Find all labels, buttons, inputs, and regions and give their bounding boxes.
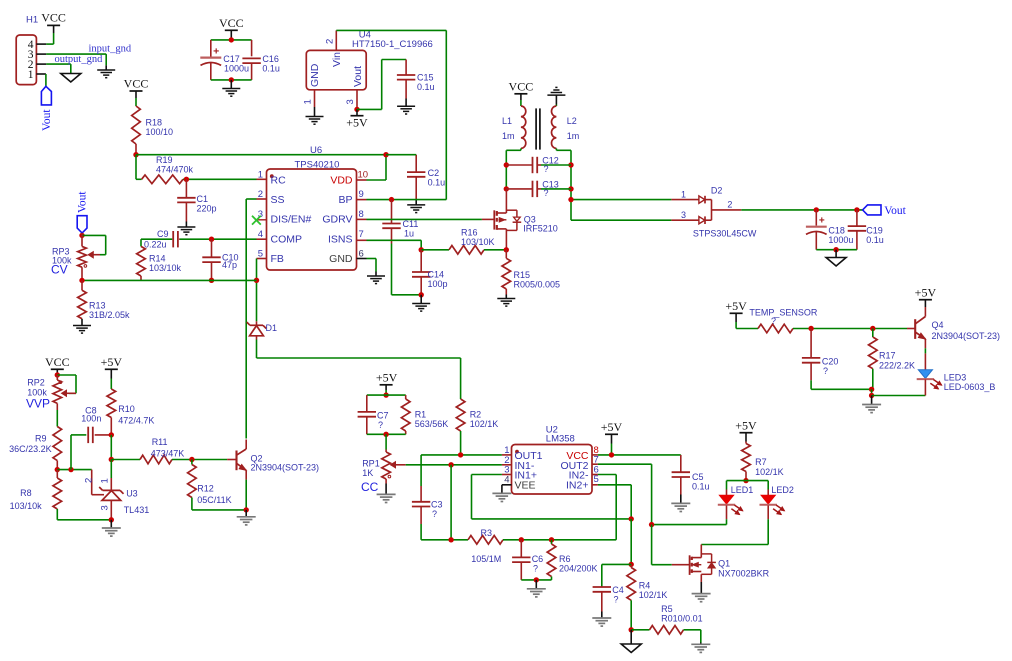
label C10 — [222, 253, 239, 271]
junction C17 bottom — [229, 77, 234, 82]
junction COMP/C10 — [209, 237, 214, 242]
shunt reference U3 TL431 — [92, 470, 124, 520]
capacitor C5 — [672, 455, 690, 503]
label R14 — [149, 254, 182, 274]
resistor R4 — [627, 564, 636, 629]
svg-text:47p: 47p — [222, 260, 237, 270]
junction U4 Vout — [354, 107, 359, 112]
wire to ground — [230, 80, 232, 89]
svg-text:5: 5 — [594, 474, 599, 485]
svg-text:2N3904(SOT-23): 2N3904(SOT-23) — [932, 331, 1001, 341]
svg-text:?: ? — [544, 188, 549, 198]
wire to output ground — [835, 250, 837, 258]
svg-text:2: 2 — [84, 478, 95, 483]
label R17 — [879, 351, 915, 371]
ground U4 — [306, 117, 324, 125]
svg-text:L2: L2 — [567, 116, 577, 126]
pin numbers U2 right — [594, 445, 599, 485]
svg-text:474/470k: 474/470k — [156, 165, 194, 175]
junction BP/C11 — [389, 197, 394, 202]
wire IN2+ down to R4 — [630, 519, 632, 565]
capacitor C1 — [177, 179, 195, 227]
junction R4/R5 — [629, 627, 634, 632]
svg-text:D1: D1 — [266, 323, 278, 333]
junction IN1- row — [448, 462, 453, 467]
svg-text:LM358: LM358 — [546, 434, 575, 445]
svg-text:VCC: VCC — [124, 77, 149, 91]
svg-text:VCC: VCC — [219, 16, 244, 30]
wire VCC to R18 — [135, 91, 137, 106]
wire VCC to RP2 — [56, 369, 58, 375]
svg-text:0.1u: 0.1u — [692, 482, 710, 492]
junction R17 top — [870, 326, 875, 331]
svg-text:HT7150-1_C19966: HT7150-1_C19966 — [352, 39, 433, 50]
svg-text:+5V: +5V — [376, 371, 398, 385]
svg-text:R14: R14 — [149, 254, 166, 264]
label H1 — [26, 15, 38, 26]
label U6 — [295, 145, 340, 171]
svg-text:+5V: +5V — [915, 285, 937, 299]
junction R4 top — [629, 562, 634, 567]
svg-text:U6: U6 — [310, 145, 322, 156]
wire C6 gnd stub — [535, 580, 537, 588]
transistor Q4 (NPN) — [915, 300, 925, 370]
svg-text:0.1u: 0.1u — [262, 63, 280, 73]
label D2 — [681, 186, 757, 239]
resistor R17 — [869, 329, 878, 390]
wire R3 row left — [421, 539, 468, 541]
junction U3 anode — [109, 517, 114, 522]
wire VCC to C17 rail — [230, 30, 232, 40]
svg-text:R19: R19 — [156, 155, 173, 165]
wire BP row — [367, 199, 447, 201]
wire R12 bottom row — [192, 509, 246, 511]
wire SS net — [246, 199, 256, 439]
svg-text:STPS30L45CW: STPS30L45CW — [693, 229, 757, 239]
wire C14 ground stub — [420, 295, 422, 304]
resistor R2 — [456, 399, 465, 455]
wire R19 to pin RC — [183, 178, 257, 180]
label R12 — [197, 484, 231, 506]
svg-text:R12: R12 — [197, 484, 214, 494]
junction output gnd — [833, 247, 838, 252]
wire C7/R1 bottom rail — [367, 433, 406, 435]
capacitor C6 — [512, 540, 530, 580]
svg-text:R13: R13 — [89, 301, 106, 311]
capacitor C4 — [593, 587, 611, 618]
label LED1 — [731, 485, 754, 495]
connector H1 — [16, 35, 36, 85]
ground R5 — [691, 644, 710, 652]
svg-text:RP1: RP1 — [362, 459, 380, 469]
ground input_gnd — [97, 70, 115, 78]
capacitor C15 — [397, 60, 415, 107]
svg-text:VEE: VEE — [515, 480, 536, 492]
power flag VCC (R18) — [124, 77, 149, 92]
svg-text:C4: C4 — [612, 585, 624, 595]
resistor R5 — [631, 626, 701, 644]
wire R17 gnd link — [871, 389, 873, 395]
label D1 — [266, 323, 278, 333]
ground R15 — [497, 299, 515, 307]
svg-text:05C/11K: 05C/11K — [197, 495, 231, 505]
wire C11 bottom to C14 bottom — [392, 294, 422, 296]
svg-text:ISNS: ISNS — [328, 234, 353, 246]
svg-text:204/200K: 204/200K — [559, 564, 598, 574]
svg-text:C15: C15 — [417, 73, 434, 83]
svg-text:C11: C11 — [403, 219, 419, 229]
inductor L2 — [552, 106, 557, 148]
junction C14 bottom — [419, 292, 424, 297]
svg-text:TEMP_SENSOR: TEMP_SENSOR — [749, 308, 818, 318]
resistor R1 — [401, 395, 410, 434]
capacitor C16 — [242, 40, 260, 80]
svg-text:3: 3 — [345, 99, 356, 104]
ground C1 — [177, 227, 195, 235]
svg-text:R16: R16 — [461, 228, 478, 238]
svg-text:SS: SS — [271, 194, 285, 206]
svg-text:100/10: 100/10 — [146, 127, 174, 137]
junction R19/C1 — [184, 177, 189, 182]
pin stub RC — [257, 178, 267, 180]
svg-text:222/2.2K: 222/2.2K — [879, 361, 915, 371]
svg-text:?: ? — [533, 564, 538, 574]
svg-text:VCC: VCC — [509, 79, 534, 93]
label C4 — [612, 585, 624, 605]
transistor Q1 (NMOS) — [690, 545, 716, 594]
wire VCC to L1 — [520, 94, 522, 106]
junction R12 top — [189, 457, 194, 462]
junction C13 left — [504, 186, 509, 191]
svg-text:R005/0.005: R005/0.005 — [514, 280, 561, 290]
label Q2 — [251, 454, 320, 473]
controller U6 — [267, 169, 357, 270]
svg-text:+5V: +5V — [601, 420, 623, 434]
svg-text:R15: R15 — [514, 270, 531, 280]
capacitor C19 — [848, 210, 866, 250]
svg-text:102/1K: 102/1K — [755, 467, 784, 477]
svg-text:31B/2.05k: 31B/2.05k — [89, 310, 130, 320]
wire GND pin to ground — [367, 259, 377, 277]
svg-text:LED3: LED3 — [944, 373, 967, 383]
junction C12 left — [504, 162, 509, 167]
label R10 — [118, 404, 154, 426]
capacitor C14 — [412, 250, 430, 295]
junction R17 bottom — [869, 387, 874, 392]
label LED2 — [771, 485, 794, 495]
wire R11 to Q2 base — [172, 459, 236, 461]
svg-text:Vin: Vin — [331, 52, 343, 67]
wire FB down — [256, 259, 258, 322]
svg-text:C5: C5 — [692, 472, 704, 482]
junction OUT2 node — [649, 522, 654, 527]
wire IN1+/IN2+ row — [472, 518, 632, 520]
svg-text:1: 1 — [303, 99, 314, 104]
wire LED1 bottom — [652, 506, 727, 525]
wire +5V stub — [611, 434, 613, 455]
svg-text:103/10k: 103/10k — [149, 263, 182, 273]
resistor R11 — [140, 455, 172, 464]
wire RP3 wiper loop — [82, 235, 106, 254]
label R11 — [151, 437, 185, 459]
resistor R18 — [132, 106, 141, 144]
svg-text:1m: 1m — [567, 131, 580, 141]
svg-text:220p: 220p — [197, 204, 217, 214]
svg-text:L1: L1 — [502, 116, 512, 126]
label R1 — [415, 410, 449, 430]
ground (flipped) above L2 — [547, 87, 565, 95]
resistor R3 — [468, 536, 503, 545]
svg-text:100p: 100p — [428, 279, 448, 289]
label R9 — [9, 434, 52, 455]
svg-text:R6: R6 — [559, 554, 571, 564]
svg-text:BP: BP — [338, 194, 352, 206]
label C19 — [866, 226, 884, 246]
label R3 — [471, 528, 501, 564]
junction D2 pin1 col — [568, 197, 573, 202]
svg-text:D2: D2 — [711, 186, 723, 196]
junction RP3 top — [79, 233, 84, 238]
power flag +5V (temp) — [725, 299, 747, 313]
junction R9/R8 — [55, 467, 60, 472]
svg-text:R9: R9 — [35, 434, 47, 444]
svg-text:1: 1 — [28, 69, 34, 81]
capacitor C10 — [202, 239, 220, 280]
potentiometer RP3 — [78, 233, 100, 280]
wire Q2 gnd stub — [245, 510, 247, 516]
junction R2/OUT1 — [458, 452, 463, 457]
svg-text:+5V: +5V — [735, 418, 757, 432]
junction C18 top — [814, 207, 819, 212]
svg-text:DIS/EN#: DIS/EN# — [271, 214, 312, 226]
capacitor C12 — [506, 157, 571, 173]
potentiometer RP2 — [53, 375, 76, 410]
ground output (triangle) — [826, 258, 846, 267]
svg-text:R5: R5 — [661, 604, 673, 614]
svg-text:NX7002BKR: NX7002BKR — [718, 569, 770, 579]
svg-text:6: 6 — [359, 248, 364, 259]
wire LED3 bottom row — [872, 395, 926, 397]
capacitor C3 — [412, 486, 430, 540]
label RP3 — [51, 247, 72, 277]
svg-text:R11: R11 — [152, 437, 168, 447]
svg-text:H1: H1 — [26, 15, 38, 26]
svg-text:7: 7 — [359, 229, 364, 240]
svg-text:?: ? — [378, 420, 383, 430]
junction C12 right — [568, 162, 573, 167]
wire R8 bottom row — [57, 519, 111, 521]
power flag +5V (U2) — [601, 420, 623, 434]
transistor Q2 (NPN) — [237, 440, 247, 510]
power flag +5V (R10) — [101, 355, 123, 369]
label RP1 — [361, 459, 380, 495]
svg-text:2: 2 — [325, 39, 336, 44]
svg-text:R8: R8 — [20, 488, 32, 498]
svg-text:+: + — [213, 46, 219, 58]
ground VEE — [492, 493, 511, 501]
wire C6/R6 bottom — [521, 579, 551, 581]
svg-text:36C/23.2K: 36C/23.2K — [9, 444, 52, 454]
wire C7/R1 top rail — [367, 394, 406, 396]
power flag VCC (RP2) — [45, 355, 70, 369]
wire H1 pin3 input_gnd — [36, 54, 106, 70]
junction R18 — [133, 152, 138, 157]
wire LED3 to row — [924, 380, 926, 396]
svg-text:472/4.7K: 472/4.7K — [118, 416, 154, 426]
wire U4 Vin to BP net — [336, 30, 446, 199]
junction RP3 bottom — [79, 278, 84, 283]
label C12 — [542, 156, 559, 175]
svg-text:VCC: VCC — [41, 11, 66, 25]
svg-text:U3: U3 — [126, 489, 138, 499]
label C17 — [223, 54, 249, 73]
resistor R12 — [188, 460, 197, 510]
wire C8 left — [71, 435, 86, 470]
svg-text:C18: C18 — [828, 226, 845, 236]
label L2 — [567, 116, 580, 141]
wire C20 bottom row — [811, 388, 872, 390]
pin numbers U6 right — [358, 170, 369, 260]
capacitor C2 — [407, 155, 425, 205]
label C8 — [81, 406, 101, 424]
label C6 — [532, 554, 544, 574]
label U3 — [84, 478, 150, 515]
svg-text:0.22u: 0.22u — [144, 240, 167, 250]
capacitor C8 — [88, 427, 111, 443]
svg-text:C19: C19 — [866, 226, 883, 236]
junction C6 top — [519, 537, 524, 542]
wire LED2 bottom — [701, 506, 768, 545]
ground Q2 — [237, 517, 256, 525]
label LED3 — [944, 373, 996, 393]
wire VCC pin row — [512, 454, 681, 456]
pin stub DIS/EN# — [258, 219, 267, 221]
junction C20 top — [808, 326, 813, 331]
wire C3 from OUT1 row — [420, 455, 422, 486]
wire U4 Vout to C15 — [357, 60, 406, 110]
wire R7 to LED tops — [727, 481, 769, 496]
svg-text:3: 3 — [681, 210, 686, 220]
svg-text:CV: CV — [51, 263, 68, 277]
power flag VCC (H1) — [41, 11, 66, 26]
svg-text:473/47K: 473/47K — [151, 449, 185, 459]
svg-text:5: 5 — [258, 248, 263, 259]
svg-text:COMP: COMP — [271, 234, 303, 246]
wire RP2 wiper loop — [57, 375, 76, 393]
svg-text:C14: C14 — [428, 270, 445, 280]
svg-text:102/1K: 102/1K — [470, 419, 499, 429]
capacitor C17 — [200, 40, 221, 80]
wire COMP row / C9 right — [180, 238, 257, 240]
resistor R6 — [547, 540, 556, 580]
ground R13 — [73, 326, 91, 334]
pin stub SS — [257, 198, 267, 200]
label U4 — [352, 30, 433, 51]
capacitor C11 — [382, 200, 400, 295]
label R16 — [461, 228, 495, 248]
svg-text:C3: C3 — [431, 500, 443, 510]
capacitor C7 — [358, 395, 376, 434]
ground C6/R6 — [527, 589, 546, 597]
wire +5V to C7/R1 — [385, 385, 387, 395]
ground C14 — [412, 304, 430, 312]
LED LED2 — [760, 495, 785, 514]
junction +5V U2 — [609, 452, 614, 457]
svg-text:C9: C9 — [157, 229, 169, 239]
transformer core — [536, 108, 540, 149]
power flag +5V (Q4) — [915, 285, 937, 299]
potentiometer RP1 — [382, 450, 406, 494]
label R13 — [89, 301, 130, 321]
junction Q2 emitter — [244, 507, 249, 512]
port Vout (RP3) — [76, 191, 88, 233]
op-amp U2 — [512, 445, 593, 495]
wire rail down to R19 — [135, 155, 137, 180]
svg-text:103/10K: 103/10K — [461, 237, 495, 247]
svg-text:4: 4 — [504, 475, 509, 486]
label R15 — [514, 270, 561, 290]
label RP2 — [26, 378, 50, 411]
svg-text:R3: R3 — [481, 528, 493, 538]
svg-text:C20: C20 — [822, 357, 839, 367]
pin 2 Vin of U4 — [325, 30, 337, 50]
ground C17 — [222, 89, 240, 97]
power flag +5V (U4) — [346, 109, 368, 129]
svg-text:100n: 100n — [81, 414, 101, 424]
svg-text:C6: C6 — [532, 554, 544, 564]
resistor R8 — [53, 470, 62, 520]
diode D2 — [699, 196, 741, 224]
wire IN1- to R3 row — [450, 465, 452, 540]
label C16 — [262, 54, 280, 73]
svg-text:R17: R17 — [879, 351, 896, 361]
svg-text:+5V: +5V — [101, 355, 123, 369]
label R2 — [470, 410, 499, 430]
ground C4 — [592, 618, 611, 626]
label C5 — [692, 472, 710, 492]
svg-text:3: 3 — [100, 505, 111, 510]
svg-text:0.1u: 0.1u — [428, 178, 446, 188]
junction R6 top — [549, 537, 554, 542]
power flag +5V (R7) — [735, 418, 757, 432]
wire R18 to rail — [135, 144, 137, 155]
label L1 — [502, 116, 515, 141]
label R4 — [639, 581, 668, 601]
svg-text:CC: CC — [361, 480, 379, 494]
wire C4 branch — [602, 564, 631, 587]
pin stub GDRV — [357, 218, 367, 220]
net label output_gnd — [55, 54, 104, 65]
ground U6 — [367, 276, 385, 284]
svg-text:RC: RC — [271, 174, 287, 186]
pin numbers U2 left — [504, 445, 509, 486]
resistor R14 — [137, 239, 146, 280]
port Vout (output) — [863, 205, 907, 217]
wire IN2- net — [592, 475, 616, 540]
wire top rail — [136, 154, 386, 156]
resistor R13 — [78, 280, 87, 325]
wire to temp ground — [871, 396, 873, 405]
pin stub VDD — [357, 179, 367, 181]
junction FB row — [254, 278, 259, 283]
junction R11 node — [109, 457, 114, 462]
resistor R9 — [53, 427, 62, 470]
junction R7/LEDs — [743, 478, 748, 483]
label C18 — [828, 226, 853, 246]
svg-text:1m: 1m — [502, 131, 515, 141]
svg-text:Vout: Vout — [41, 109, 53, 131]
power flag VCC (C17) — [219, 16, 244, 30]
